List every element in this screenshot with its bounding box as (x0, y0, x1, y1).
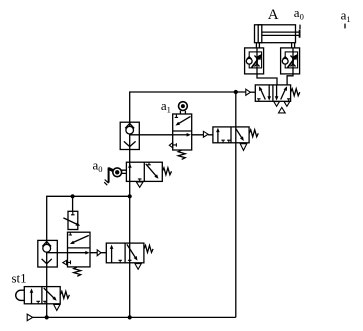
V1 pilot triangle (246, 89, 251, 95)
position tick a1 (344, 24, 346, 29)
V3 pilot triangle (203, 131, 208, 137)
V1 exhaust triangle port 5 (284, 102, 290, 107)
wire CB2 to valve V4 (57, 252, 67, 254)
one-way flow control valve FC1 (245, 48, 264, 74)
a0 exhaust triangle (136, 182, 143, 187)
V2 pilot triangle (97, 250, 101, 256)
sequence valve V4 pilot (adjustable) (63, 211, 80, 229)
svg-text:A: A (268, 7, 279, 23)
V2 return spring (144, 245, 153, 252)
V3 return spring (249, 130, 258, 137)
roller limit valve a0 (104, 162, 162, 185)
wire V4 pilot riser (72, 196, 74, 211)
junction dot node s2 (128, 194, 132, 198)
V4 return spring (74, 267, 81, 276)
position tick a0 (299, 25, 301, 30)
wire a1 output to V3 pilot (192, 134, 213, 136)
junction dot node s1 (71, 194, 75, 198)
check/shuttle element CB1 (120, 122, 139, 149)
wire CB1 to valve a1 (139, 134, 172, 136)
wire pilot line to main valve V1 (130, 92, 246, 122)
one-way flow control valve FC2 (281, 48, 300, 74)
wire signal bus y196 (47, 196, 130, 240)
roller limit valve a1 (173, 102, 192, 150)
compressed air source triangle (27, 314, 33, 321)
valve V2 (3/2 pilot valve center) (106, 243, 144, 263)
svg-text:st1: st1 (12, 270, 27, 285)
st1 return spring (60, 291, 69, 298)
junction dot pilot node (234, 90, 238, 94)
wire flow-control FC1 to V1 port 4 (257, 74, 277, 85)
wire flow-control FC2 to V1 port 2 (287, 74, 293, 85)
wire center vertical x130 (a0 / V2 supply line) (129, 150, 131, 318)
wire V4 output to V2 pilot (90, 252, 106, 254)
junction dot supply at st1 (45, 315, 49, 319)
a1 return spring (178, 150, 185, 159)
a0 return spring (162, 168, 171, 175)
V1 return spring (291, 89, 300, 96)
V1 supply triangle port 1 (279, 107, 286, 113)
a1 exhaust triangle (169, 143, 172, 148)
V1 exhaust triangle port 3 (274, 102, 280, 107)
check/shuttle element CB2 (38, 240, 58, 267)
st1 exhaust triangle (54, 305, 60, 311)
cylinder A (255, 25, 300, 48)
start valve st1 (push button 3/2) (16, 287, 61, 304)
wire supply riser right (to valve V3 and pilot junction) (235, 92, 237, 317)
wire supply bottom line (33, 316, 236, 318)
V3 exhaust triangle (240, 144, 247, 151)
junction dot supply at x130 (128, 315, 132, 319)
V2 exhaust triangle (135, 264, 141, 270)
sequence valve V4 body (68, 232, 91, 267)
V4 exhaust triangle (63, 260, 67, 265)
valve V3 (3/2 pilot valve right) (213, 127, 249, 143)
main 5/2 directional valve V1 (255, 85, 290, 101)
wire CB2 to supply vertical (46, 267, 48, 317)
